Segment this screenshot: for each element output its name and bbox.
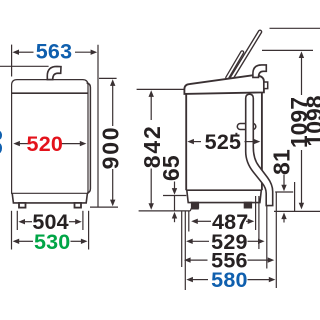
rear panel edge (right of body) [87, 83, 91, 193]
529 right extension line [258, 196, 260, 249]
svg-text:530: 530 [34, 230, 70, 254]
81 down arrowhead [281, 185, 286, 192]
842 top extension line [137, 88, 186, 90]
525 right arrowhead [254, 139, 261, 144]
842 up arrowhead [149, 90, 154, 97]
530 right shaft [71, 240, 82, 242]
504 left arrowhead [18, 219, 25, 224]
open lid short panel [227, 52, 242, 78]
487 right arrowhead [248, 219, 255, 224]
504 left shaft [25, 221, 32, 223]
487 left extension line [188, 211, 190, 232]
525 left shaft [194, 141, 202, 143]
svg-text:900: 900 [98, 126, 124, 170]
842 dim line upper segment [150, 96, 152, 121]
65 dim shaft [174, 182, 176, 189]
65 shaft below [174, 218, 176, 222]
563 left extension line [11, 45, 13, 77]
556 left arrowhead [184, 257, 191, 262]
open lid long panel [232, 32, 260, 78]
900 up arrowhead [110, 79, 115, 86]
hose-exit extension line [275, 191, 293, 193]
520 right arrowhead [80, 141, 87, 146]
floor line left of side view (65 lower ref) [139, 210, 191, 212]
520 left arrowhead [13, 141, 20, 146]
back wall [261, 92, 263, 190]
529 right shaft [248, 240, 260, 242]
520 left shaft [20, 143, 29, 145]
back-top hose [253, 65, 266, 78]
clamp screw dot [235, 133, 237, 135]
556 right shaft [248, 259, 269, 261]
520 right shaft [62, 143, 81, 145]
525 right shaft (crosses drain hose) [245, 141, 255, 143]
water inlet tab (back) [264, 82, 268, 89]
580 right arrowhead [269, 277, 276, 282]
floor line right of side view [274, 210, 320, 212]
1097 down arrowhead [299, 203, 304, 210]
563 left arrowhead [12, 50, 19, 55]
504 right arrowhead [75, 219, 82, 224]
530 right arrowhead [81, 239, 88, 244]
front wall [185, 94, 187, 190]
900 bottom extension line [90, 206, 118, 208]
487 left shaft [197, 220, 211, 222]
900 top extension line [99, 77, 117, 79]
504 right extension line [82, 211, 84, 230]
base plinth [12, 193, 87, 203]
faucet hose on top [47, 66, 61, 79]
floor step under front foot [190, 209, 199, 211]
lid open extension line (second) [262, 49, 313, 51]
svg-text:65: 65 [158, 155, 184, 181]
ext line to faucet-hose top (left edge) [0, 65, 49, 67]
842 down arrowhead [149, 203, 154, 210]
base seam (side view) [186, 189, 262, 191]
580 left shaft [193, 279, 209, 281]
563 dimension line right segment [75, 51, 92, 53]
front foot (side view) [192, 203, 198, 208]
487 right shaft [246, 220, 249, 222]
svg-text:520: 520 [27, 132, 63, 156]
drain hose (back, S-curve to floor) [246, 94, 273, 205]
left foot [19, 203, 26, 208]
svg-text:563: 563 [36, 39, 72, 63]
525 left arrowhead [187, 139, 194, 144]
580 left arrowhead [186, 277, 193, 282]
530 left shaft [19, 240, 33, 242]
563 right arrowhead [91, 50, 98, 55]
530 right extension line [88, 211, 90, 250]
81 up arrowhead [281, 213, 286, 220]
81 upper shaft [283, 175, 285, 186]
900 dim line lower segment [112, 169, 114, 201]
842 dim line lower segment [150, 169, 152, 205]
65 up arrowhead [172, 212, 177, 219]
580 right extension line [275, 192, 277, 288]
top panel slab [184, 75, 264, 94]
530 left extension line [11, 211, 13, 250]
487 right extension line [255, 196, 257, 230]
529 left shaft [192, 240, 209, 242]
washer body (front view) [12, 80, 88, 194]
563 right extension line (long, down to base level) [97, 45, 99, 207]
right foot [75, 203, 82, 208]
556 right extension line [266, 206, 268, 269]
504 right shaft [69, 221, 76, 223]
65 down arrowhead [172, 188, 177, 195]
rear foot (side view) [245, 203, 252, 208]
svg-text:1098: 1098 [301, 95, 320, 146]
hose clamp band [237, 124, 256, 130]
529 right arrowhead [258, 239, 265, 244]
487 left arrowhead [191, 219, 198, 224]
1097 up arrowhead [299, 51, 304, 58]
529 left extension line [184, 211, 186, 290]
530 left arrowhead [13, 239, 20, 244]
65 shaft between refs [174, 196, 176, 211]
lid seam line [12, 92, 88, 94]
900 down arrowhead [110, 200, 115, 207]
563 dimension line left segment [18, 51, 34, 53]
81 lower shaft [283, 219, 285, 223]
base plinth (side view) [187, 190, 261, 202]
lid open extension line (tall, top) [270, 27, 320, 29]
1097 dim line upper segment [301, 57, 303, 95]
580 left extension line [181, 211, 183, 267]
900 dim line upper segment [112, 85, 114, 127]
svg-text:81: 81 [269, 149, 295, 175]
ext line from hose exit to floor [294, 182, 296, 211]
529 left arrowhead [186, 239, 193, 244]
556 left shaft [190, 259, 207, 261]
plinth-top extension line (65 upper ref) [163, 195, 186, 197]
556 right arrowhead [268, 257, 275, 262]
580 right shaft [248, 279, 270, 281]
504 left extension line [16, 211, 18, 230]
svg-text:580: 580 [211, 268, 247, 292]
svg-text:89: 89 [0, 128, 7, 155]
1097 dim line lower segment [301, 150, 303, 204]
svg-text:525: 525 [205, 130, 241, 154]
